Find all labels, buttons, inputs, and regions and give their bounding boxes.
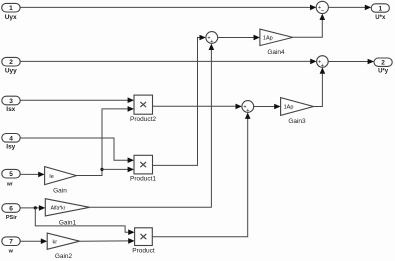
gain Gain3 (1Ap) (281, 98, 314, 116)
svg-text:Product: Product (132, 248, 155, 255)
arrowhead into S3 bottom (209, 44, 215, 50)
svg-text:wr: wr (6, 182, 13, 188)
wire Gain4 out to S1 bottom (293, 15, 323, 37)
wire Product out to S4 bottom (152, 114, 247, 237)
wire P5 to Gain (21, 173, 44, 175)
inport 4 (2, 134, 20, 143)
arrowhead into Product1 in1 (128, 157, 134, 163)
svg-text:Isx: Isx (6, 106, 15, 113)
gain Gain2 (kr) (47, 233, 79, 249)
inport 5 (2, 169, 20, 178)
wire Product2 out to S4 left (153, 105, 241, 107)
arrowhead into S3 left (200, 35, 206, 41)
svg-text:Gain3: Gain3 (288, 118, 306, 125)
arrowhead into Product2 in2 (128, 106, 134, 112)
product Product2 (134, 95, 153, 114)
arrowhead into Product in2 (128, 238, 134, 244)
arrowhead into Product in1 (128, 229, 134, 235)
svg-text:Gain1: Gain1 (59, 220, 77, 227)
junction on Gain output (100, 168, 103, 171)
svg-text:U*x: U*x (375, 15, 386, 21)
svg-text:Gain4: Gain4 (267, 49, 285, 56)
arrowhead into S4 bottom (245, 113, 251, 119)
arrowhead into Gain (38, 172, 44, 178)
wire PSir branch to Product input 1 (35, 208, 133, 232)
svg-text:6: 6 (9, 206, 13, 213)
wire Gain2 out to Product input 2 (80, 240, 134, 242)
gain Gain (Ie) (45, 167, 77, 185)
svg-text:+: + (321, 63, 324, 69)
junction on PSir wire (34, 206, 37, 209)
svg-text:PSir: PSir (6, 215, 18, 221)
arrowhead into S2 bottom (320, 67, 326, 73)
wire S1 out to outport 1 (328, 6, 369, 8)
outport 2 (374, 58, 392, 67)
svg-text:Product1: Product1 (130, 176, 156, 183)
wire Product1 out to S3 left (153, 38, 205, 166)
arrowhead into S2 left (310, 59, 316, 65)
arrowhead into Product1 in2 (128, 167, 134, 173)
wire Gain out to Product2 input 2 (77, 109, 133, 176)
svg-text:4: 4 (9, 135, 13, 142)
wire P3 to Product2 input 1 (21, 99, 133, 101)
svg-text:Gain: Gain (53, 187, 67, 194)
inport 2 (2, 57, 20, 66)
arrowhead into Gain1 (39, 205, 45, 211)
arrowhead into Product2 in1 (128, 97, 134, 103)
gain Gain4 (1Ap) (260, 29, 293, 45)
svg-text:Isy: Isy (6, 144, 15, 151)
product Product1 (134, 155, 153, 174)
arrowhead into S4 left (236, 104, 242, 110)
wire branch to Product1 input 2 (102, 168, 133, 170)
svg-text:2: 2 (381, 60, 385, 67)
product Product (135, 228, 153, 246)
svg-text:+: + (210, 39, 213, 45)
wire S4 out to Gain3 (254, 106, 280, 108)
outport 1 (371, 4, 389, 13)
svg-text:kr: kr (53, 239, 58, 245)
svg-text:3: 3 (9, 98, 13, 105)
gain Gain1 (Alfa*kr) (45, 199, 89, 216)
inport 1 (2, 3, 20, 12)
svg-text:1: 1 (378, 6, 382, 13)
svg-text:1Ap: 1Ap (263, 36, 273, 42)
svg-text:Product2: Product2 (130, 116, 156, 123)
sum S1 (+-) (316, 1, 328, 14)
svg-text:Uyx: Uyx (5, 14, 17, 21)
wire P4 elbow to Product1 input 1 (21, 138, 133, 160)
svg-text:Alfa*kr: Alfa*kr (51, 205, 66, 211)
wire P6 to Gain1 (21, 207, 44, 209)
arrowhead into S1 bottom (320, 14, 326, 20)
inport 6 (2, 204, 20, 213)
sum S2 (++) (317, 56, 329, 69)
svg-text:+: + (246, 108, 249, 114)
svg-text:Uyy: Uyy (5, 67, 17, 74)
wire S3 out to Gain4 (218, 37, 259, 39)
wire P2 to S2 (21, 60, 316, 62)
wire Gain3 out to S2 bottom (314, 69, 323, 107)
arrowhead into Gain4 (254, 35, 260, 41)
svg-text:5: 5 (9, 171, 13, 178)
svg-text:Gain2: Gain2 (55, 253, 73, 260)
svg-text:U*y: U*y (378, 69, 389, 75)
inport 3 (2, 96, 20, 105)
arrowhead into S1 left (310, 5, 316, 11)
svg-text:1Ap: 1Ap (284, 105, 294, 111)
svg-text:−: − (321, 8, 325, 14)
arrowhead into Gain3 (274, 104, 280, 110)
svg-text:2: 2 (9, 59, 13, 66)
wire P1 to S1 (20, 6, 315, 8)
inport 7 (2, 237, 20, 246)
arrowhead into outport 2 (368, 59, 374, 65)
svg-text:Ie: Ie (49, 174, 54, 180)
wire S2 out to outport 2 (328, 61, 372, 63)
sum S3 (++) (206, 32, 218, 45)
sum S4 (++) (242, 101, 254, 115)
svg-text:w: w (8, 249, 14, 255)
arrowhead into Gain2 (41, 238, 47, 244)
wire P7 to Gain2 (21, 240, 46, 242)
svg-text:7: 7 (9, 239, 13, 246)
svg-text:1: 1 (9, 5, 13, 12)
arrowhead into outport 1 (365, 5, 371, 11)
wire Gain1 out to S3 bottom (90, 45, 212, 207)
